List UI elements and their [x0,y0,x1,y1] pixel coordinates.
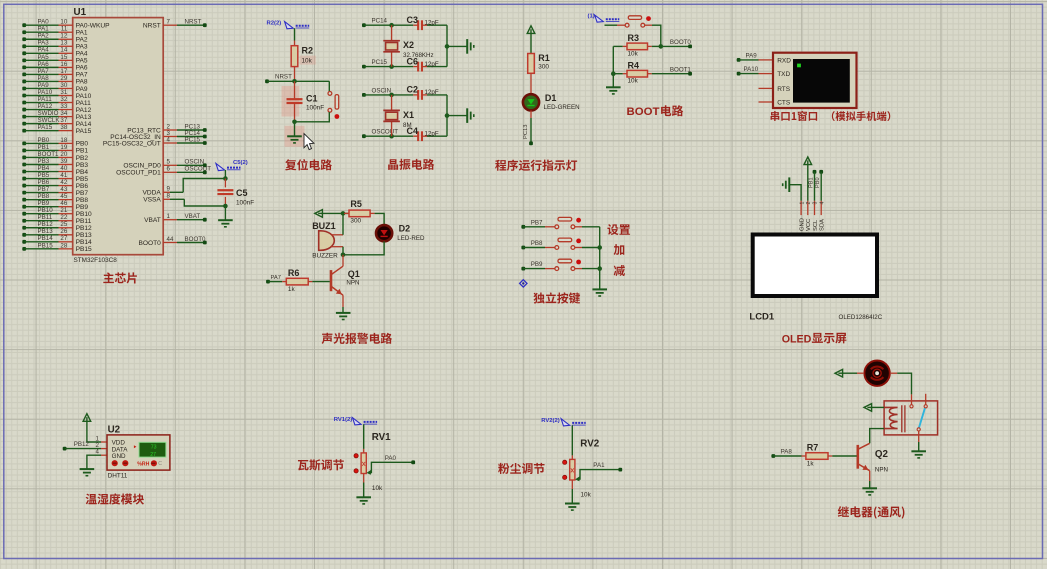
chinese label 减 [614,265,625,276]
svg-text:PB9: PB9 [38,200,50,207]
ground relay [911,451,926,458]
relay box [884,401,938,435]
junction OSCOUT/crystal [389,134,394,139]
wire power to relay coil [872,406,885,408]
chinese label 串口1窗口（模拟手机端） [771,111,891,121]
svg-text:14: 14 [60,47,67,54]
svg-text:1k: 1k [807,461,815,468]
svg-text:PA10: PA10 [744,66,759,73]
svg-text:C: C [158,461,162,467]
chinese label 晶振电路 [388,159,434,170]
U1 pin PB12 (25) wire / net PB12 [22,221,92,232]
wire button PB9 to rail [575,268,600,270]
svg-text:10: 10 [60,19,67,26]
svg-text:PA0-WKUP: PA0-WKUP [76,23,111,30]
svg-text:PC15: PC15 [185,136,201,143]
relay core [902,405,905,432]
net PA7 wire [266,275,282,284]
OLED pin labels GND VCC SCL SDA [800,218,826,231]
serial terminal pins RXD TXD RTS CTS [759,60,774,102]
wire relay pole to ground [918,431,920,451]
svg-text:PB13: PB13 [76,232,92,239]
svg-text:GND: GND [800,218,806,231]
svg-text:BUZ1: BUZ1 [312,221,336,231]
ground DHT11 [80,469,95,476]
svg-text:10k: 10k [628,50,639,57]
svg-text:PA1: PA1 [593,462,605,469]
OLED pin header pins 1-4 [799,201,825,215]
ground OLED (sideways) [783,177,790,192]
wire ground to OLED GND pin [789,185,801,201]
wire DHT11 GND to ground [87,455,101,469]
U1 pin NRST (7) wire / net NRST [143,19,207,30]
svg-text:PA5: PA5 [38,54,50,61]
ground buttons [592,289,607,296]
svg-text:PA7: PA7 [76,72,88,79]
svg-text:PA3: PA3 [76,44,88,51]
U1 pin VSSA (8) wire [143,193,225,206]
push button PB8 [555,238,575,249]
svg-text:PA4: PA4 [38,47,50,54]
wire C5 to ground [224,206,226,220]
U1 pin PA12 (33) wire / net PA12 [22,103,91,114]
DHT11 red pointer [134,445,137,448]
wire Q1 emitter to ground [342,295,344,312]
microcontroller U1 body [73,18,164,255]
svg-text:PA8: PA8 [76,79,88,86]
svg-text:VBAT: VBAT [144,217,161,224]
wire C3/C6 to ground rail [446,25,448,66]
svg-text:LCD1: LCD1 [749,312,775,323]
svg-text:PC14: PC14 [372,18,388,25]
svg-text:PB5: PB5 [38,172,50,179]
svg-text:PB13: PB13 [38,228,54,235]
wire buzzer bottom pin to junction [342,247,344,255]
svg-text:PA12: PA12 [38,103,53,110]
wire D2 to junction [343,241,384,254]
svg-text:NPN: NPN [875,467,888,474]
wire power to DHT11 VDD [87,421,101,442]
ground X2 (sideways) [467,39,474,54]
svg-text:RV2: RV2 [580,439,599,450]
wire power to motor [843,372,864,374]
resistor R1 [528,53,550,74]
chinese label 声光报警电路 [322,333,392,344]
svg-text:39: 39 [60,158,67,165]
svg-text:PA6: PA6 [76,65,88,72]
svg-text:PA6: PA6 [38,61,50,68]
svg-text:PA9: PA9 [38,82,50,89]
U1 pin PA15 (38) wire / net PA15 [22,124,91,135]
svg-text:PB7: PB7 [38,186,50,193]
svg-text:300: 300 [538,64,549,71]
svg-text:44: 44 [167,236,174,243]
net BOOT0 wire [661,39,692,48]
U1 pin PA14 (37) wire / net SWCLK [22,117,91,128]
svg-text:RV1(2): RV1(2) [334,417,353,423]
svg-text:37: 37 [60,117,67,124]
capacitor C6 [407,56,448,71]
svg-text:C1: C1 [306,94,318,104]
svg-text:DHT11: DHT11 [108,472,128,479]
svg-text:VDDA: VDDA [142,190,161,197]
svg-text:PA8: PA8 [38,75,50,82]
net OSCIN wire [362,87,413,97]
chinese label 温湿度模块 [86,493,144,504]
ground buzzer circuit [336,313,351,320]
wire probe to RV1 [363,424,365,453]
origin marker (blue diamond) [520,280,527,287]
svg-text:PB4: PB4 [38,165,50,172]
chinese label 复位电路 [285,159,332,170]
U1 pin VBAT (1) wire / net VBAT [144,213,207,224]
svg-text:NRST: NRST [275,74,292,81]
svg-text:PB1: PB1 [38,144,50,151]
U1 pin OSCIN_PD0 (5) wire / net OSCIN [123,159,206,170]
net label NRST wire [265,74,329,84]
U1 pin PA2 (12) wire / net PA2 [22,33,88,44]
svg-text:PB8: PB8 [38,193,50,200]
voltage probe RV2(2) [561,419,570,426]
svg-text:R1: R1 [538,53,550,63]
svg-text:10k: 10k [372,485,383,492]
chinese label 加 [614,244,625,255]
svg-text:32.768KHz: 32.768KHz [403,52,434,59]
transistor Q1 NPN [331,266,360,295]
svg-text:SCL: SCL [813,219,819,231]
svg-text:PA0: PA0 [38,19,50,26]
wire rail to buzzer top pin [342,213,344,234]
svg-text:PB8: PB8 [531,240,543,247]
selection highlight around R2 value [300,56,316,65]
svg-text:OSCIN_PD0: OSCIN_PD0 [123,163,161,170]
svg-text:NRST: NRST [143,23,161,30]
svg-text:BOOT0: BOOT0 [185,236,207,243]
U1 pin PA13 (34) wire / net SWDIO [22,110,91,121]
chinese label 程序运行指示灯 [495,160,577,171]
wire Q2 emitter to ground [869,471,871,488]
net PB7 wire [521,219,555,228]
svg-text:Q1: Q1 [348,269,360,279]
svg-text:13: 13 [60,40,67,47]
buzzer BUZ1 [312,221,343,260]
svg-text:PC15: PC15 [372,59,388,66]
U1 pin PB1 (19) wire / net PB1 [22,144,88,155]
svg-text:R7: R7 [807,442,819,452]
junction ground rail X2 [445,44,450,49]
terminal black screen [793,59,850,103]
U1 pin PA10 (31) wire / net PA10 [22,89,91,100]
U1 pin PA8 (29) wire / net PA8 [22,75,88,86]
relay coil [884,407,898,428]
svg-text:12: 12 [60,33,67,40]
svg-text:PA14: PA14 [76,121,92,128]
net PC15 wire [362,59,413,69]
svg-text:8M: 8M [403,122,412,129]
svg-text:OLED12864I2C: OLED12864I2C [839,314,883,321]
svg-text:PB0: PB0 [76,141,89,148]
U1 pin PA3 (13) wire / net PA3 [22,40,88,51]
junction ground rail X1 [445,113,450,118]
svg-text:PA8: PA8 [781,448,793,455]
svg-text:2: 2 [806,202,812,205]
svg-text:PB4: PB4 [76,169,89,176]
svg-text:SWCLK: SWCLK [38,117,61,124]
svg-text:11: 11 [61,26,68,33]
svg-text:46: 46 [60,200,67,207]
wire rail to ground BOOT [612,74,614,87]
svg-text:BOOT1: BOOT1 [670,67,692,74]
wire button PB8 to rail [575,247,600,249]
U1 pin OSCOUT_PD1 (6) wire / net OSCOUT [116,166,211,177]
RV2 adjust buttons [563,460,567,479]
chinese label 粉尘调节 [498,463,544,474]
svg-text:C2: C2 [407,85,419,95]
svg-text:3: 3 [813,202,819,205]
chinese label 继电器(通风) [838,506,905,519]
wire C1 to ground [294,122,296,136]
svg-text:38: 38 [60,124,67,131]
U1 pin PB9 (46) wire / net PB9 [22,200,88,211]
svg-text:U1: U1 [74,7,87,18]
svg-text:12pF: 12pF [425,130,439,137]
svg-text:OSCOUT: OSCOUT [372,129,399,136]
svg-text:SDA: SDA [820,219,826,231]
capacitor C2 [407,85,448,100]
fan motor [864,361,889,386]
mouse cursor [304,134,314,150]
junction PC15/crystal [389,64,394,69]
wire probe to R2 [294,28,296,46]
net PB12 wire [63,441,101,451]
svg-text:TXD: TXD [777,71,790,78]
U1 pin PB0 (18) wire / net PB0 [22,137,88,148]
chinese label OLED显示屏 [782,333,847,346]
svg-text:PB7: PB7 [76,190,89,197]
svg-text:C3: C3 [407,15,419,25]
svg-text:300: 300 [350,218,361,225]
svg-text:73: 73 [151,445,157,451]
junction power/R5/buzzer [341,211,346,216]
RV1 adjust buttons [354,454,358,473]
svg-text:20: 20 [60,151,67,158]
U1 pin PB5 (41) wire / net PB5 [22,172,88,183]
svg-text:RTS: RTS [777,86,791,93]
svg-text:PA15: PA15 [38,124,53,131]
resistor R2 [291,46,313,67]
svg-text:X2: X2 [403,40,414,50]
svg-text:PA9: PA9 [76,86,88,93]
svg-text:PB14: PB14 [76,239,92,246]
terminal PA1 [618,468,622,472]
wire NRST to reset button top [328,81,330,91]
relay switch blade [919,408,925,427]
svg-text:%RH: %RH [137,461,149,467]
chinese label 瓦斯调节 [298,459,344,470]
relay pole contact [917,428,920,431]
svg-text:34: 34 [60,110,67,117]
svg-text:12pF: 12pF [425,61,439,68]
relay common terminal [910,394,913,408]
U1 pin PA1 (11) wire / net PA1 [22,26,88,37]
capacitor C5 [217,179,254,207]
svg-text:1: 1 [799,202,805,205]
svg-text:PA7: PA7 [271,275,282,281]
svg-text:19: 19 [60,144,67,151]
svg-text:(1): (1) [588,14,595,20]
svg-text:PA1: PA1 [76,30,88,37]
svg-text:4: 4 [167,136,171,143]
power symbol relay coil [864,404,872,412]
DHT11 pins 1 2 4 [96,435,107,455]
svg-text:5: 5 [167,159,171,166]
svg-text:PB5: PB5 [76,176,89,183]
U1 pin PC13_RTC (2) wire / net PC13 [127,123,206,134]
net PA9 wire [737,52,759,62]
svg-text:C5(2): C5(2) [233,160,248,166]
svg-text:R2: R2 [302,46,314,56]
wire C2/C4 to ground rail [446,95,448,136]
crystal X2 [383,25,433,66]
svg-text:PB8: PB8 [76,197,89,204]
svg-text:PA2: PA2 [76,37,88,44]
svg-text:BOOT0: BOOT0 [670,39,692,46]
U1 pin PB11 (22) wire / net PB11 [22,214,91,225]
chinese label 主芯片 [103,272,137,283]
RV2 wiper wire to net PA1 [575,462,620,481]
U1 pin PB3 (39) wire / net PB3 [22,158,88,169]
resistor R4 [613,60,652,84]
U1 pin PA9 (30) wire / net PA9 [22,82,88,93]
svg-text:BOOT1: BOOT1 [38,151,60,158]
push button PB9 [555,259,575,270]
U1 pin VDDA (9) wire [142,179,225,197]
wire relay coil to Q2 collector [870,429,884,444]
power symbol motor [835,369,843,377]
voltage probe (1) [595,15,604,22]
wire D1 to PC13 terminal [523,111,531,144]
svg-text:OSCOUT_PD1: OSCOUT_PD1 [116,170,161,177]
U1 pin PA7 (17) wire / net PA7 [22,68,88,79]
terminal cursor block [797,64,801,68]
svg-text:1k: 1k [288,286,296,293]
chinese label 设置 [607,224,630,235]
U1 pin BOOT0 (44) wire / net BOOT0 [138,236,206,247]
svg-text:32: 32 [60,96,67,103]
U1 pin PB7 (43) wire / net PB7 [22,186,88,197]
svg-text:PB15: PB15 [38,242,54,249]
svg-text:PB1: PB1 [76,148,89,155]
svg-text:SWDIO: SWDIO [38,110,59,117]
boot push button [625,16,645,27]
terminal PA0 [411,460,415,464]
svg-text:10k: 10k [581,491,592,498]
net PB9 wire [521,261,555,270]
svg-text:PC15-OSC32_OUT: PC15-OSC32_OUT [103,140,161,147]
svg-text:9: 9 [167,186,171,193]
ground reset circuit [287,136,302,143]
wire rail to ground X1 [447,115,467,117]
svg-text:LED-RED: LED-RED [397,235,425,242]
junction OSCIN/crystal [389,93,394,98]
svg-text:C5: C5 [236,188,248,198]
junction buzzer/D2/Q1 [341,253,346,258]
OLED display LCD1 body [753,235,877,297]
U1 pin PB10 (21) wire / net PB10 [22,207,92,218]
svg-text:30: 30 [60,82,67,89]
voltage probe RV1(2) [353,418,362,425]
crystal X1 [383,95,414,136]
svg-text:VBAT: VBAT [185,213,201,220]
svg-text:STM32F103C8: STM32F103C8 [74,257,118,264]
svg-text:PA12: PA12 [76,107,92,114]
junction rail PB8 [597,245,602,250]
U1 pin PA11 (32) wire / net PA11 [22,96,91,107]
resistor R6 [282,268,330,293]
left rail R3-R4 [612,46,614,73]
power symbol OLED VCC [804,157,812,165]
svg-text:PB12: PB12 [74,441,90,448]
svg-text:45: 45 [60,193,67,200]
U1 pin PB8 (45) wire / net PB8 [22,193,88,204]
resistor R5 [344,199,375,224]
wire motor to relay switch [891,373,912,394]
svg-text:NPN: NPN [346,280,359,287]
push button PB7 [555,217,575,228]
net BOOT1 wire [652,67,692,76]
wire button PB7 to rail [575,226,600,228]
svg-text:PA11: PA11 [76,100,91,107]
junction R3/button/BOOT0 [659,44,664,49]
capacitor C4 [407,126,448,141]
U1 pin PA0-WKUP (10) wire / net PA0 [22,19,110,30]
svg-text:25: 25 [60,221,67,228]
svg-text:6: 6 [167,166,171,173]
ground BOOT circuit [606,87,621,94]
svg-text:PB7: PB7 [531,219,543,226]
svg-text:D1: D1 [545,93,557,103]
U1 pin PC14-OSC32_IN (3) wire / net PC14 [110,130,206,141]
svg-text:PA0: PA0 [385,455,397,462]
net PB0 wire to SDA [815,170,823,201]
svg-text:PB10: PB10 [38,207,54,214]
potentiometer RV1 body [361,453,366,474]
svg-text:PB11: PB11 [76,218,92,225]
svg-text:PB1: PB1 [808,177,814,188]
svg-text:16: 16 [60,61,67,68]
svg-text:PA5: PA5 [76,58,88,65]
U1 pin PB4 (40) wire / net PB4 [22,165,88,176]
svg-text:15: 15 [60,54,67,61]
svg-text:OSCIN: OSCIN [372,87,392,94]
svg-text:4: 4 [96,449,100,456]
junction PC14/crystal [389,23,394,28]
U1 pin PB15 (28) wire / net PB15 [22,242,92,253]
ground X1 (sideways) [467,108,474,123]
svg-text:PA10: PA10 [38,89,53,96]
svg-text:OSCIN: OSCIN [185,159,205,166]
svg-text:33: 33 [60,103,67,110]
svg-text:12pF: 12pF [425,89,439,96]
U1 pin PA6 (16) wire / net PA6 [22,61,88,72]
reset push button [328,92,339,113]
U1 pin PB2 (20) wire / net BOOT1 [22,151,88,162]
svg-text:PA3: PA3 [38,40,50,47]
svg-text:GND: GND [112,453,126,460]
wire reset button bottom [295,112,330,122]
ground below C5 [218,220,233,227]
svg-text:PB11: PB11 [38,214,53,221]
